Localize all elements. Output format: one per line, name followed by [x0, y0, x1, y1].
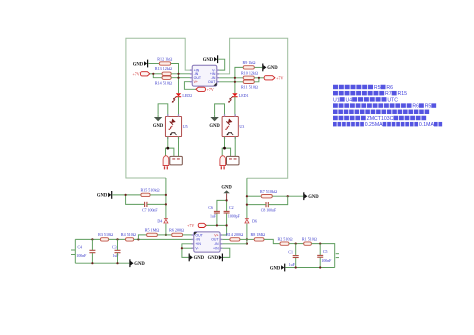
resistor R9 1k	[243, 60, 256, 69]
connector P1 (right header)	[227, 156, 240, 165]
ground GND (left opto)	[153, 115, 164, 129]
svg-text:R14 510Ω: R14 510Ω	[155, 81, 172, 86]
svg-text:R1 510Ω: R1 510Ω	[302, 236, 317, 241]
svg-text:GND: GND	[308, 195, 319, 200]
svg-text:U1: U1	[333, 97, 340, 103]
resistor R6 200	[169, 228, 184, 237]
wire	[319, 258, 321, 268]
svg-text:0.1MA: 0.1MA	[419, 122, 435, 128]
svg-text:U3: U3	[239, 124, 244, 129]
wire	[171, 73, 190, 75]
svg-text:V+: V+	[214, 233, 218, 237]
capacitor C7 100nF	[142, 202, 158, 213]
svg-text:C5: C5	[323, 250, 328, 254]
note: annotation line 4	[333, 103, 436, 109]
wire	[224, 137, 226, 149]
power port +7V (U1 supply)	[196, 87, 214, 92]
ground GND (bottom left)	[130, 259, 145, 267]
svg-text:GND: GND	[267, 66, 278, 71]
svg-text:C7 100nF: C7 100nF	[142, 208, 158, 212]
resistor R14 510	[155, 76, 172, 86]
junction	[152, 73, 154, 75]
wire	[219, 77, 243, 79]
junction	[137, 238, 139, 240]
note: annotation line 1	[333, 85, 393, 91]
wire	[153, 74, 162, 78]
svg-text:GND: GND	[194, 256, 205, 261]
note: annotation line 3	[333, 97, 398, 103]
resistor R3 510	[98, 232, 113, 241]
wire: D6 feedback chain	[246, 178, 248, 219]
wire	[295, 258, 297, 268]
resistor R2 510	[278, 236, 293, 245]
svg-text:OUT: OUT	[208, 80, 216, 84]
wire	[178, 137, 180, 157]
junction	[165, 194, 167, 196]
resistor R4 510	[121, 232, 136, 241]
svg-text:C1: C1	[288, 250, 293, 254]
svg-text:R14 200Ω: R14 200Ω	[226, 232, 243, 237]
svg-text:GND: GND	[209, 124, 220, 129]
resistor R13 12k	[155, 66, 172, 75]
svg-text:1000pF: 1000pF	[228, 215, 241, 219]
svg-text:ZMCT103C: ZMCT103C	[367, 116, 394, 122]
wire	[226, 213, 228, 225]
svg-text:U4: U4	[346, 97, 353, 103]
svg-text:+IN: +IN	[195, 242, 201, 246]
svg-text:V+: V+	[194, 80, 198, 84]
junction	[116, 262, 118, 264]
power port +7V (right comparator)	[264, 76, 283, 81]
ground GND (mid right)	[304, 192, 319, 200]
wire	[246, 224, 248, 244]
junction	[295, 243, 297, 245]
svg-text:R13 12kΩ: R13 12kΩ	[155, 66, 172, 71]
svg-text:LED1: LED1	[239, 93, 249, 98]
capacitor C5 100nF	[317, 250, 332, 263]
connector: CT input (left)	[74, 239, 76, 263]
junction	[226, 199, 228, 201]
svg-text:GND: GND	[97, 194, 108, 199]
wire	[150, 194, 166, 196]
wire	[285, 267, 334, 269]
wire	[168, 148, 174, 156]
svg-text:LED2: LED2	[182, 93, 192, 98]
wire	[226, 200, 228, 211]
port TD1 (right output)	[220, 156, 226, 170]
wire	[225, 148, 231, 156]
svg-text:+7V: +7V	[132, 72, 139, 77]
wire	[134, 238, 192, 240]
wire	[219, 81, 243, 83]
capacitor C4 100nF	[76, 246, 95, 258]
svg-text:R6: R6	[386, 85, 393, 91]
junction	[177, 73, 179, 75]
svg-text:GND: GND	[153, 124, 164, 129]
junction	[246, 204, 248, 206]
junction	[319, 243, 321, 245]
svg-text:C3: C3	[112, 246, 117, 250]
note: annotation line 5	[333, 110, 429, 114]
svg-text:D6: D6	[252, 218, 257, 223]
wire	[222, 148, 224, 156]
wire	[222, 243, 247, 245]
ground GND (under U2, left)	[189, 254, 204, 262]
junction	[116, 238, 118, 240]
wire	[234, 137, 236, 157]
wire	[158, 104, 168, 117]
resistor R5 1M	[145, 228, 160, 237]
wire	[247, 195, 261, 197]
wire	[147, 203, 166, 205]
wire	[234, 97, 236, 117]
wire: left channel input net routed as top frame	[126, 38, 190, 178]
wire	[222, 238, 230, 240]
wire: right channel input net routed as top frame	[219, 38, 288, 178]
capacitor C6 1uF	[208, 206, 220, 219]
svg-text:+IN: +IN	[213, 247, 219, 251]
junction	[177, 77, 179, 79]
svg-text:R12 1kΩ: R12 1kΩ	[157, 56, 172, 61]
wire	[117, 239, 119, 250]
wire	[71, 254, 75, 256]
optocoupler U3	[222, 114, 244, 139]
wire	[75, 262, 129, 264]
ground GND (top left)	[133, 60, 148, 68]
junction	[181, 247, 183, 249]
svg-text:R11 510Ω: R11 510Ω	[241, 85, 258, 90]
wire	[117, 253, 119, 263]
wire	[254, 66, 262, 68]
wire	[272, 195, 303, 197]
svg-text:1uF: 1uF	[289, 263, 296, 267]
svg-text:U5: U5	[183, 124, 188, 129]
svg-text:GND: GND	[203, 58, 214, 63]
junction	[226, 224, 228, 226]
op-amp U2 (dual)	[192, 232, 223, 252]
wire	[295, 244, 297, 256]
optocoupler U5	[165, 114, 187, 139]
wire	[166, 148, 168, 156]
capacitor C1 1uF	[288, 250, 298, 267]
wire	[182, 244, 192, 258]
svg-text:GND: GND	[270, 266, 281, 271]
wire	[165, 224, 167, 235]
diode D6	[245, 218, 257, 223]
svg-text:GND: GND	[133, 62, 144, 67]
junction	[165, 203, 167, 205]
junction	[246, 238, 248, 240]
resistor R10 12k	[241, 71, 258, 80]
power port +7V (left comparator)	[132, 72, 149, 77]
wire	[289, 243, 304, 245]
connector P2 (left header)	[170, 156, 183, 165]
wire	[171, 64, 179, 94]
resistor R12 1k	[157, 56, 172, 65]
wire: D4 feedback chain	[165, 178, 167, 219]
junction	[319, 266, 321, 268]
wire	[182, 247, 192, 249]
svg-text:C8 100nF: C8 100nF	[261, 209, 277, 213]
junction	[125, 194, 127, 196]
junction	[246, 243, 248, 245]
junction	[258, 77, 260, 79]
svg-text:R15 510kΩ: R15 510kΩ	[140, 188, 159, 193]
resistor R15 510k	[140, 188, 159, 197]
wire	[178, 97, 180, 117]
wire	[311, 244, 334, 268]
wire	[171, 77, 190, 79]
svg-text:R5: R5	[425, 104, 432, 110]
junction	[287, 195, 289, 197]
junction	[165, 234, 167, 236]
resistor R11 510	[241, 80, 258, 90]
resistor R14 200 (second stage)	[226, 232, 243, 241]
svg-text:R7: R7	[385, 91, 392, 97]
svg-text:R7 510kΩ: R7 510kΩ	[260, 189, 277, 194]
wire	[112, 194, 141, 196]
wire	[183, 234, 192, 236]
power port +7V (U2 supply)	[187, 223, 206, 228]
wire	[167, 137, 169, 149]
wire	[126, 195, 145, 205]
svg-text:1uF: 1uF	[210, 215, 217, 219]
resistor R1 510	[302, 236, 317, 245]
wire: +7V rail to V+	[206, 225, 226, 235]
wire	[215, 104, 225, 117]
svg-text:OUT: OUT	[195, 233, 203, 237]
note: annotation line 6	[333, 116, 426, 122]
svg-text:GND: GND	[208, 256, 219, 261]
wire	[109, 238, 126, 240]
junction	[216, 224, 218, 226]
svg-text:R10 12kΩ: R10 12kΩ	[241, 71, 258, 76]
svg-text:UTC: UTC	[387, 97, 398, 103]
wire	[226, 193, 228, 200]
svg-text:C6: C6	[208, 206, 213, 210]
wire	[157, 234, 171, 236]
wire	[91, 253, 93, 263]
wire	[218, 59, 225, 70]
wire	[217, 200, 227, 211]
wire	[247, 204, 266, 206]
LED D2 (LED2)	[172, 93, 192, 103]
wire	[222, 248, 229, 257]
wire	[184, 82, 196, 90]
capacitor C8 100nF	[261, 202, 277, 213]
svg-text:R5 1MΩ: R5 1MΩ	[145, 228, 160, 233]
wire	[71, 249, 75, 251]
wire	[336, 257, 339, 259]
capacitor C2 1000pF	[224, 206, 241, 219]
svg-text:R8 1MΩ: R8 1MΩ	[251, 232, 266, 237]
svg-text:D4: D4	[157, 218, 162, 223]
connector: output (right)	[336, 253, 339, 255]
svg-text:GND: GND	[134, 262, 145, 267]
svg-text:R3 510Ω: R3 510Ω	[98, 232, 113, 237]
ground GND (center, above C6/C2)	[221, 186, 232, 194]
svg-text:R5: R5	[374, 85, 381, 91]
svg-text:-IN: -IN	[195, 238, 200, 242]
svg-text:OUT: OUT	[211, 238, 219, 242]
ground GND (top center)	[203, 55, 218, 63]
port TD2 (left output)	[163, 156, 169, 170]
ground GND (top right)	[263, 64, 278, 72]
svg-text:+7V: +7V	[207, 87, 214, 92]
svg-text:R15: R15	[397, 91, 407, 97]
svg-text:C2: C2	[229, 206, 234, 210]
junction	[234, 77, 236, 79]
wire	[264, 239, 280, 243]
wire	[319, 244, 321, 255]
resistor R8 1M	[251, 232, 266, 241]
junction	[295, 266, 297, 268]
junction	[166, 147, 169, 150]
diode D4	[157, 218, 168, 223]
ground GND (mid left)	[97, 191, 112, 199]
op-amp U1 (dual comparator)	[190, 65, 219, 86]
svg-text:-IN: -IN	[214, 242, 219, 246]
wire	[148, 63, 159, 65]
svg-text:100nF: 100nF	[321, 259, 332, 263]
note: annotation line 2	[333, 91, 407, 97]
junction	[223, 147, 226, 150]
wire	[138, 235, 146, 240]
svg-text:R9 1kΩ: R9 1kΩ	[243, 60, 256, 65]
svg-text:100nF: 100nF	[76, 254, 87, 258]
note: annotation line 7	[333, 122, 442, 128]
svg-text:+7V: +7V	[187, 223, 194, 228]
svg-text:R6 200Ω: R6 200Ω	[169, 228, 184, 233]
ground GND (bottom right)	[270, 264, 285, 272]
ground GND (right opto)	[209, 115, 220, 129]
junction	[91, 238, 93, 240]
svg-text:1uF: 1uF	[113, 254, 120, 258]
svg-text:C4: C4	[77, 246, 82, 250]
junction	[91, 262, 93, 264]
capacitor C3 1uF	[112, 246, 120, 258]
svg-text:R6: R6	[412, 104, 419, 110]
junction	[246, 195, 248, 197]
svg-text:+7V: +7V	[276, 76, 283, 81]
LED D1 (LED1)	[228, 93, 248, 103]
wire	[75, 238, 100, 240]
wire	[240, 238, 254, 240]
wire	[91, 239, 93, 250]
wire	[235, 67, 243, 93]
resistor R7 510k	[260, 189, 277, 198]
junction	[234, 81, 236, 83]
wire	[268, 196, 287, 204]
svg-text:0.25MA: 0.25MA	[365, 122, 383, 128]
svg-text:R4 510Ω: R4 510Ω	[121, 232, 136, 237]
wire	[216, 213, 218, 225]
ground GND (under U2, right)	[208, 254, 223, 262]
svg-text:GND: GND	[221, 186, 232, 191]
svg-text:R2 510Ω: R2 510Ω	[278, 236, 293, 241]
wire	[150, 73, 162, 75]
wire	[254, 78, 259, 82]
wire	[254, 77, 264, 79]
